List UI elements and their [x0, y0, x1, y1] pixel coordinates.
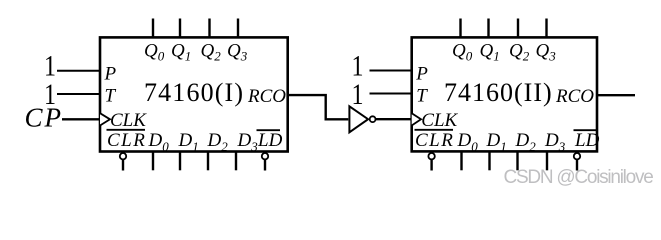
U2 CLR bubble — [428, 153, 434, 159]
wire 1 to U1 P — [57, 70, 100, 72]
U1 pin Q1 stub — [179, 19, 181, 38]
svg-text:P: P — [415, 64, 428, 85]
svg-text:LD: LD — [257, 130, 283, 151]
U1 D1 stub — [179, 153, 181, 171]
wire 1 to U2 T — [370, 93, 412, 95]
U1 pin Q3 stub — [237, 19, 239, 38]
U2 CLK edge-trigger triangle — [412, 113, 421, 125]
U1 D0 stub — [152, 153, 154, 171]
U1 label LD overline — [257, 129, 281, 131]
U1 CLK edge-trigger triangle — [100, 113, 110, 125]
svg-text:CLK: CLK — [110, 110, 147, 131]
U2 D0 stub — [460, 153, 462, 171]
IC U1 74160(I) body — [100, 37, 288, 151]
wire 1 to U1 T — [57, 93, 100, 95]
wire 1 to U2 P — [370, 70, 412, 72]
U1 D2 stub — [207, 153, 209, 171]
svg-text:74160(I): 74160(I) — [144, 78, 244, 107]
U2 label CLR overline — [415, 129, 454, 131]
inverter G1 triangle — [349, 106, 368, 132]
U2 D2 stub — [516, 153, 518, 171]
svg-text:LD: LD — [574, 130, 600, 151]
U1 D3 stub — [235, 153, 237, 171]
U1 CLR bubble — [120, 153, 126, 159]
svg-text:RCO: RCO — [247, 86, 286, 107]
svg-text:74160(II): 74160(II) — [444, 78, 553, 107]
svg-text:RCO: RCO — [555, 86, 594, 107]
wire U1 RCO to inverter (elbow) — [289, 95, 349, 119]
wire U2 RCO output — [597, 94, 635, 96]
U2 LD bubble — [574, 153, 580, 159]
U2 pin Q3 stub — [545, 19, 547, 38]
U1 LD bubble — [262, 153, 268, 159]
inverter G1 bubble — [370, 116, 376, 122]
wire CP to U1 CLK — [62, 118, 100, 120]
U2 D3 stub — [546, 153, 548, 171]
svg-text:CLK: CLK — [421, 110, 458, 131]
svg-text:CSDN @Coisinilove: CSDN @Coisinilove — [504, 167, 654, 188]
svg-text:1: 1 — [352, 77, 364, 110]
svg-text:CLR: CLR — [107, 130, 146, 151]
svg-text:T: T — [105, 86, 117, 107]
svg-text:T: T — [416, 86, 428, 107]
U1 CLR stub — [122, 160, 124, 171]
U1 LD stub — [264, 160, 266, 171]
U2 pin Q0 stub — [459, 19, 461, 38]
svg-text:CP: CP — [25, 103, 64, 133]
svg-text:CLR: CLR — [415, 130, 454, 151]
U2 label LD overline — [574, 129, 598, 131]
U1 label CLR overline — [107, 129, 146, 131]
U2 LD stub — [576, 160, 578, 171]
U1 pin Q0 stub — [152, 19, 154, 38]
U2 CLR stub — [430, 160, 432, 171]
svg-text:P: P — [104, 64, 117, 85]
U2 pin Q1 stub — [487, 19, 489, 38]
wire inverter to U2 CLK — [376, 118, 412, 120]
U2 pin Q2 stub — [517, 19, 519, 38]
IC U2 74160(II) body — [412, 37, 597, 151]
U2 D1 stub — [488, 153, 490, 171]
U1 pin Q2 stub — [208, 19, 210, 38]
